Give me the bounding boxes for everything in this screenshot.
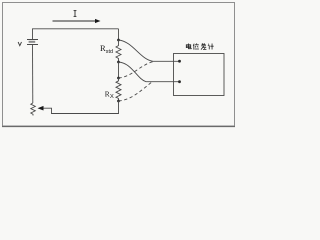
- wire: R_x bottom to bottom rail: [43, 101, 119, 114]
- border frame: [3, 3, 235, 127]
- label I: [74, 11, 77, 17]
- svg-text:std: std: [106, 49, 113, 55]
- solid wire curve: R_std top to potentiometer top terminal: [119, 40, 180, 61]
- node B (R_std bottom): [117, 61, 120, 64]
- dashed wire curve: R_x top to potentiometer top terminal: [119, 62, 155, 79]
- wire: top rail down to R_std top node: [118, 29, 120, 40]
- svg-text:X: X: [110, 94, 114, 100]
- dashed wire curve: R_x bottom to potentiometer bottom terminal: [119, 82, 153, 101]
- wiper arrow of rheostat: [38, 106, 44, 111]
- label 电位差计: [186, 43, 213, 49]
- terminal dot (bottom): [178, 80, 181, 83]
- node D (R_x bottom): [117, 100, 120, 103]
- current arrow I: [53, 19, 101, 23]
- node A (R_std top): [117, 39, 120, 42]
- label V: [18, 42, 21, 46]
- terminal dot (top): [178, 60, 181, 63]
- solid wire curve: R_std bottom to potentiometer bottom terminal: [119, 62, 180, 82]
- wire between R_std and R_x: [118, 62, 120, 78]
- resistor R_std: [116, 40, 121, 62]
- wire: battery bottom to rheostat: [32, 45, 34, 104]
- battery V: [27, 40, 38, 45]
- resistor R_x: [116, 78, 121, 101]
- wire: battery top to top rail corner: [33, 29, 119, 39]
- node C (R_x top): [117, 77, 120, 80]
- rheostat (bottom-left resistor): [31, 103, 36, 116]
- potentiometer box U1: [174, 54, 225, 96]
